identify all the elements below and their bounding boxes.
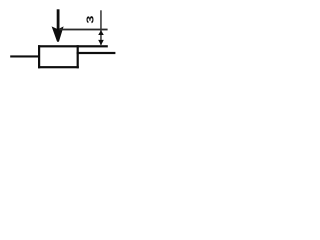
svg-text:3: 3: [85, 15, 96, 23]
